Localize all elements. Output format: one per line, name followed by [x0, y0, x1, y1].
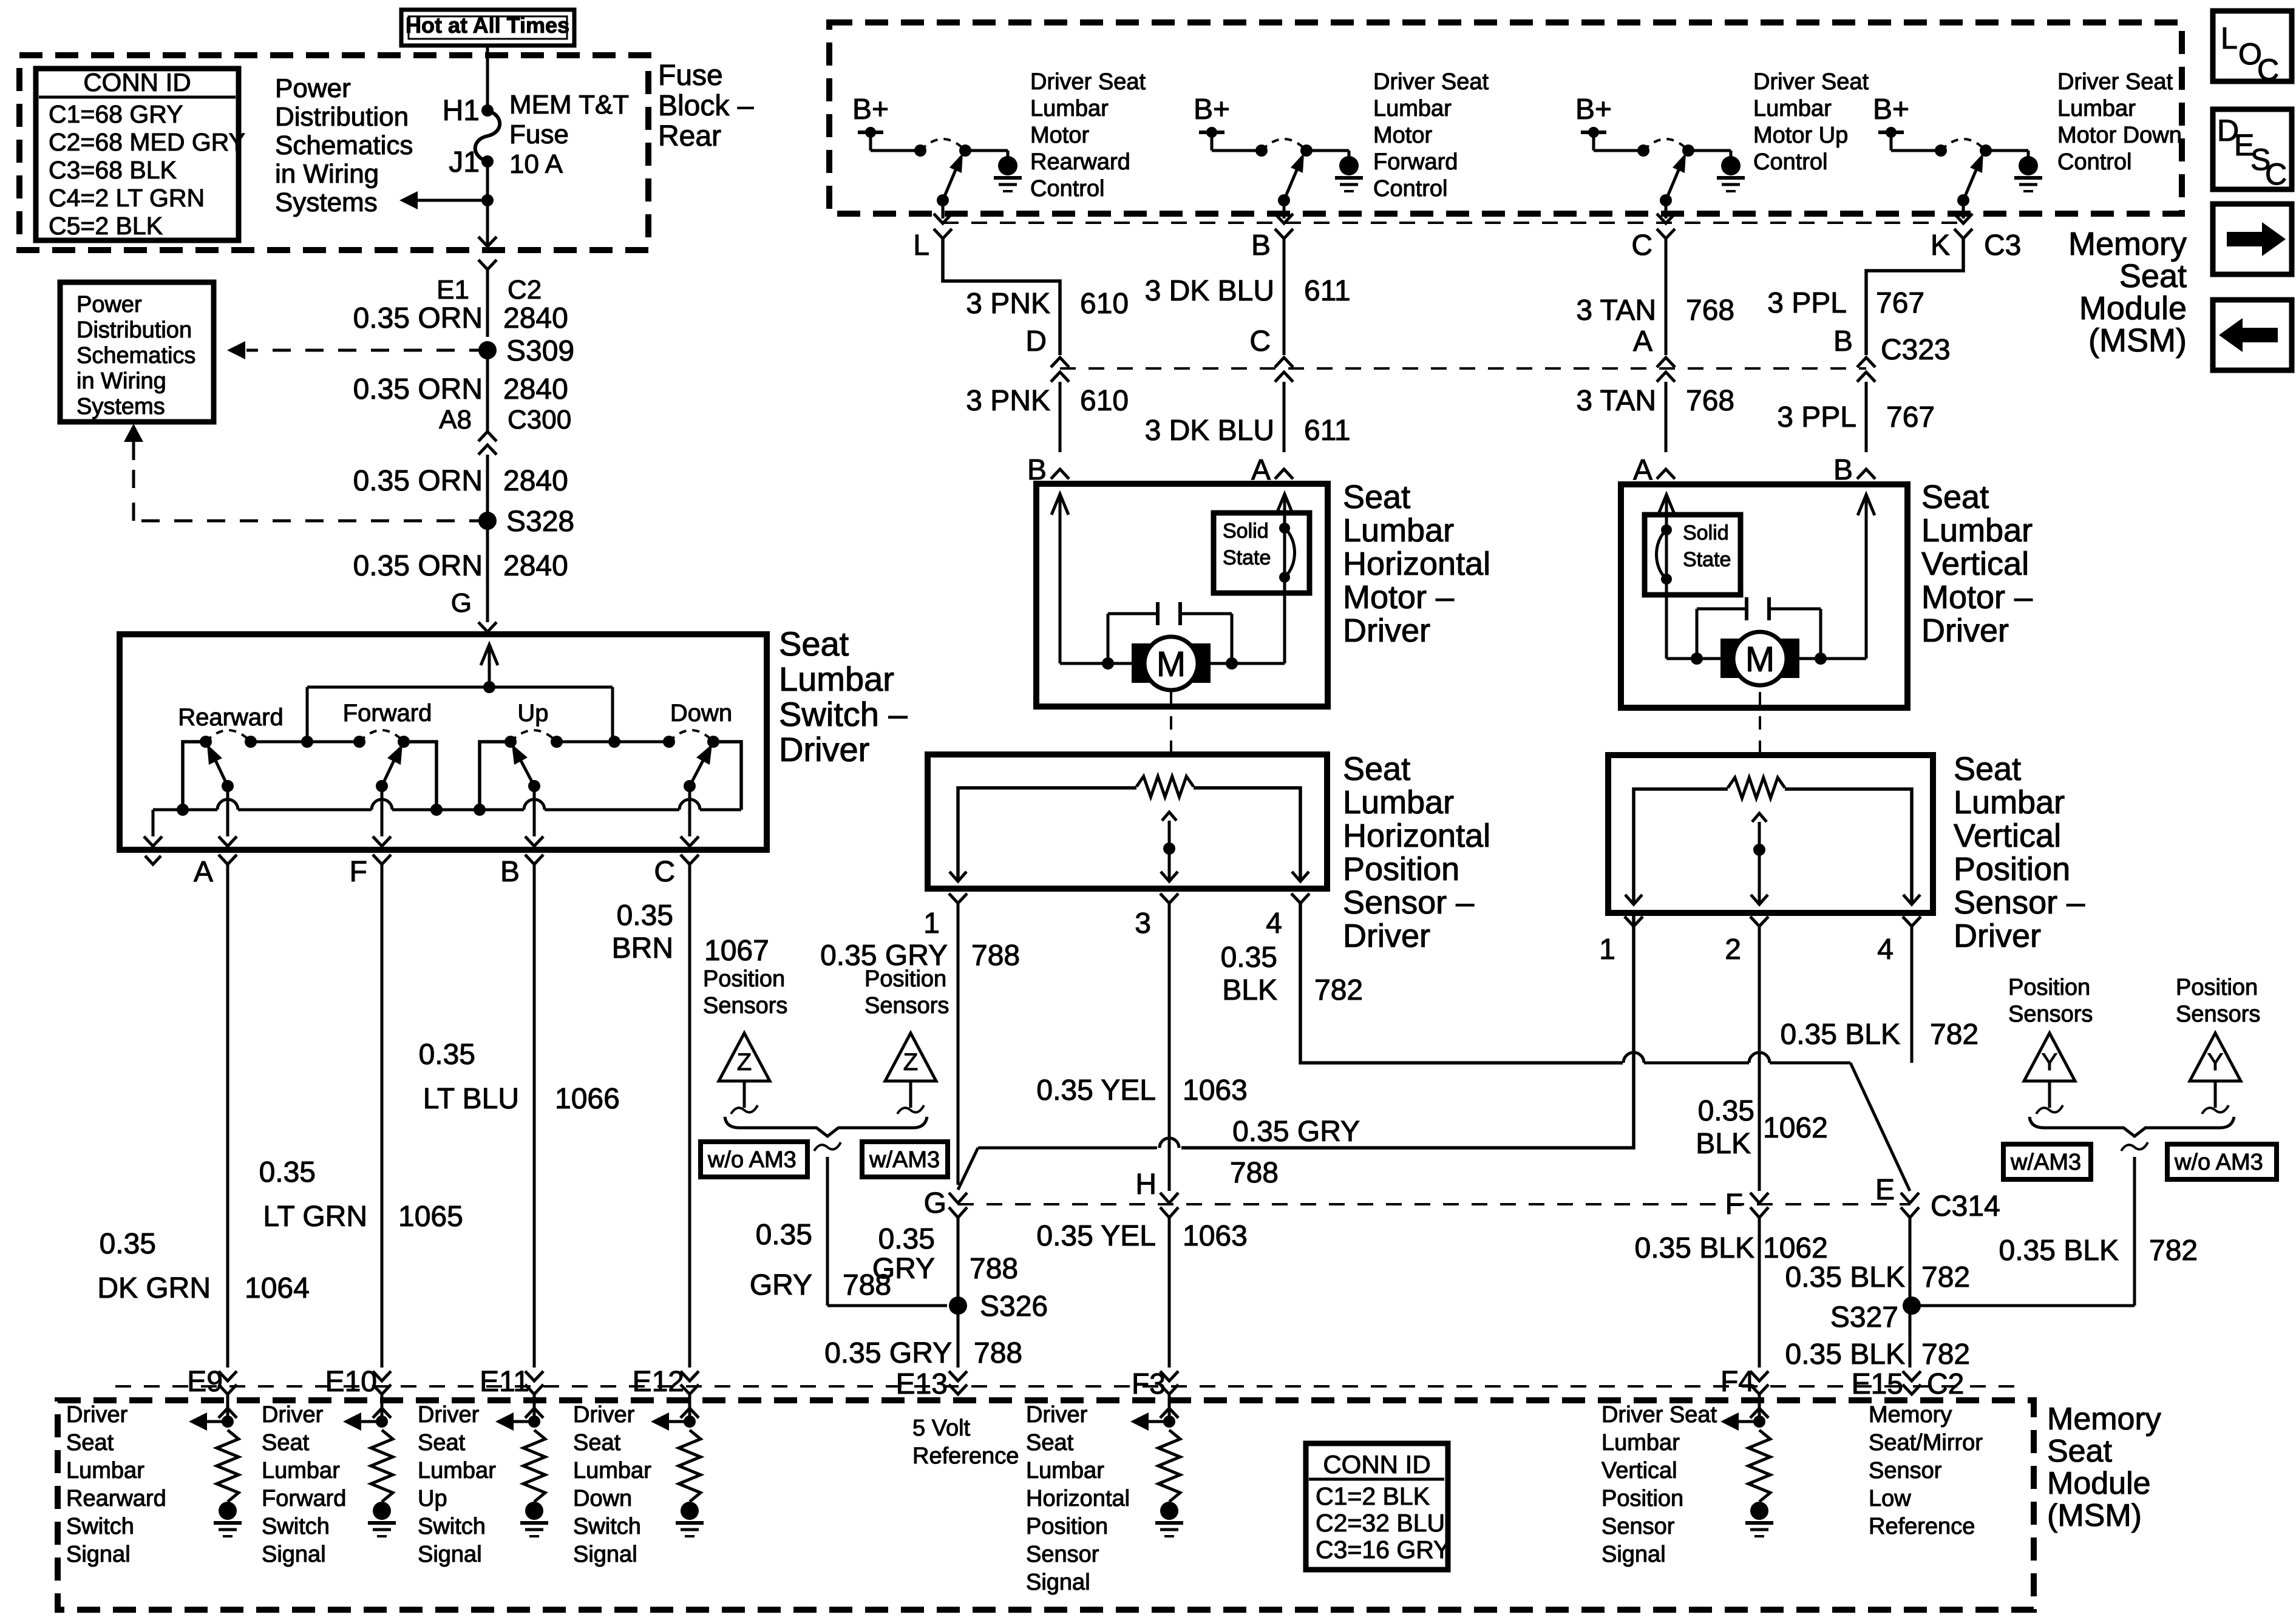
- svg-text:Down: Down: [670, 700, 732, 727]
- svg-text:Seat: Seat: [66, 1430, 114, 1456]
- svg-text:782: 782: [2149, 1235, 2198, 1267]
- svg-text:Seat: Seat: [779, 625, 849, 663]
- svg-text:1064: 1064: [245, 1272, 310, 1304]
- svg-text:Driver Seat: Driver Seat: [2057, 69, 2173, 95]
- svg-text:C3=16 GRY: C3=16 GRY: [1316, 1536, 1450, 1564]
- svg-text:Solid: Solid: [1683, 521, 1729, 544]
- svg-text:Lumbar: Lumbar: [1753, 96, 1832, 121]
- svg-text:Driver: Driver: [66, 1402, 128, 1428]
- svg-text:G: G: [451, 588, 472, 618]
- svg-text:3 PPL: 3 PPL: [1767, 287, 1847, 319]
- svg-text:J1: J1: [449, 146, 480, 178]
- svg-text:3 TAN: 3 TAN: [1576, 294, 1656, 327]
- svg-text:Distribution: Distribution: [275, 102, 409, 132]
- svg-text:Sensors: Sensors: [703, 993, 787, 1019]
- svg-text:Schematics: Schematics: [275, 131, 413, 160]
- svg-text:Position: Position: [703, 966, 785, 992]
- svg-text:Horizontal: Horizontal: [1343, 546, 1490, 582]
- svg-text:Power: Power: [275, 73, 351, 103]
- svg-text:Fuse: Fuse: [509, 120, 569, 149]
- svg-text:1: 1: [923, 907, 940, 940]
- svg-text:Sensor –: Sensor –: [1954, 884, 2085, 921]
- svg-text:B+: B+: [1575, 93, 1612, 126]
- svg-text:0.35 BLK: 0.35 BLK: [1635, 1232, 1754, 1264]
- svg-text:F4: F4: [1720, 1366, 1754, 1398]
- svg-text:F: F: [350, 856, 367, 888]
- svg-text:Driver: Driver: [262, 1402, 324, 1428]
- svg-text:in Wiring: in Wiring: [275, 159, 379, 189]
- svg-text:BLK: BLK: [1696, 1128, 1751, 1160]
- svg-text:Up: Up: [517, 700, 548, 727]
- svg-text:1062: 1062: [1763, 1112, 1828, 1144]
- svg-text:Block –: Block –: [658, 90, 754, 122]
- svg-text:(MSM): (MSM): [2047, 1498, 2142, 1533]
- svg-text:B: B: [500, 856, 520, 888]
- svg-text:Reference: Reference: [1869, 1514, 1975, 1539]
- svg-text:0.35 GRY: 0.35 GRY: [1232, 1116, 1360, 1148]
- svg-text:Seat: Seat: [1343, 479, 1410, 515]
- svg-text:611: 611: [1304, 415, 1351, 447]
- svg-text:BLK: BLK: [1222, 974, 1277, 1006]
- svg-text:Z: Z: [737, 1049, 752, 1076]
- svg-text:F: F: [1725, 1188, 1743, 1221]
- svg-text:3 PNK: 3 PNK: [966, 288, 1050, 320]
- svg-text:Systems: Systems: [275, 188, 378, 217]
- svg-text:782: 782: [1930, 1019, 1978, 1051]
- svg-text:H: H: [1135, 1168, 1156, 1201]
- svg-text:Lumbar: Lumbar: [1954, 784, 2065, 821]
- svg-text:Position: Position: [2008, 975, 2090, 1000]
- svg-text:Driver: Driver: [779, 730, 869, 768]
- svg-text:788: 788: [971, 940, 1020, 972]
- svg-text:4: 4: [1877, 934, 1894, 966]
- svg-text:Lumbar: Lumbar: [1343, 512, 1454, 549]
- svg-text:Position: Position: [1343, 851, 1459, 887]
- svg-text:10 A: 10 A: [509, 149, 563, 179]
- svg-text:2840: 2840: [503, 302, 568, 334]
- svg-text:0.35: 0.35: [259, 1156, 316, 1188]
- svg-text:1065: 1065: [398, 1201, 463, 1233]
- svg-text:Module: Module: [2047, 1466, 2151, 1501]
- svg-text:Lumbar: Lumbar: [779, 660, 894, 698]
- svg-text:3 TAN: 3 TAN: [1576, 385, 1656, 417]
- svg-text:Signal: Signal: [262, 1542, 326, 1567]
- svg-text:C1=68 GRY: C1=68 GRY: [49, 100, 183, 128]
- svg-text:State: State: [1683, 548, 1731, 571]
- svg-text:0.35 BLK: 0.35 BLK: [1781, 1019, 1900, 1051]
- svg-text:C2=68 MED GRY: C2=68 MED GRY: [49, 128, 245, 156]
- svg-text:C: C: [2257, 53, 2279, 87]
- svg-text:1063: 1063: [1183, 1220, 1248, 1252]
- svg-text:788: 788: [1230, 1157, 1279, 1189]
- svg-text:Vertical: Vertical: [1601, 1458, 1677, 1483]
- svg-text:Schematics: Schematics: [76, 343, 195, 368]
- svg-text:Motor: Motor: [1373, 123, 1432, 148]
- svg-text:Driver: Driver: [1343, 918, 1430, 954]
- svg-text:Control: Control: [1373, 176, 1448, 202]
- svg-text:Signal: Signal: [1026, 1570, 1090, 1595]
- svg-text:Vertical: Vertical: [1954, 818, 2061, 854]
- svg-text:0.35: 0.35: [419, 1039, 475, 1071]
- svg-text:Lumbar: Lumbar: [262, 1458, 340, 1483]
- svg-text:C3: C3: [1984, 229, 2021, 262]
- svg-text:610: 610: [1080, 288, 1129, 320]
- svg-text:Lumbar: Lumbar: [1030, 96, 1109, 121]
- svg-text:Switch: Switch: [66, 1514, 134, 1539]
- svg-text:Solid: Solid: [1223, 520, 1269, 543]
- svg-text:LT BLU: LT BLU: [423, 1083, 519, 1115]
- svg-text:DK GRN: DK GRN: [97, 1272, 211, 1304]
- svg-text:S327: S327: [1830, 1301, 1898, 1334]
- svg-text:Lumbar: Lumbar: [2057, 96, 2136, 121]
- svg-text:Signal: Signal: [573, 1542, 637, 1567]
- svg-text:Lumbar: Lumbar: [1343, 784, 1454, 821]
- svg-text:Seat: Seat: [1954, 751, 2021, 787]
- svg-text:Lumbar: Lumbar: [66, 1458, 144, 1483]
- svg-text:Seat: Seat: [1921, 479, 1989, 515]
- svg-text:Driver Seat: Driver Seat: [1030, 69, 1146, 95]
- svg-text:Control: Control: [2057, 149, 2132, 175]
- svg-text:3 DK BLU: 3 DK BLU: [1145, 275, 1274, 307]
- svg-text:Switch: Switch: [418, 1514, 486, 1539]
- svg-text:Signal: Signal: [1601, 1542, 1666, 1567]
- svg-text:0.35 BLK: 0.35 BLK: [1785, 1261, 1905, 1293]
- svg-text:0.35 BLK: 0.35 BLK: [1999, 1235, 2119, 1267]
- svg-text:3 PPL: 3 PPL: [1777, 401, 1856, 433]
- svg-text:0.35: 0.35: [756, 1219, 812, 1251]
- svg-text:C323: C323: [1881, 334, 1951, 366]
- svg-text:Driver Seat: Driver Seat: [1601, 1402, 1717, 1428]
- svg-text:S309: S309: [506, 335, 574, 367]
- svg-text:w/AM3: w/AM3: [2010, 1150, 2081, 1175]
- svg-text:(MSM): (MSM): [2088, 322, 2187, 359]
- svg-text:M: M: [1156, 645, 1186, 684]
- svg-text:C3=68 BLK: C3=68 BLK: [49, 156, 177, 184]
- svg-text:S326: S326: [980, 1290, 1048, 1323]
- svg-text:Switch: Switch: [573, 1514, 641, 1539]
- svg-text:0.35 YEL: 0.35 YEL: [1036, 1220, 1156, 1252]
- svg-text:E9: E9: [187, 1366, 223, 1398]
- svg-text:C2: C2: [508, 275, 542, 305]
- svg-text:3 DK BLU: 3 DK BLU: [1145, 415, 1274, 447]
- svg-text:Driver Seat: Driver Seat: [1753, 69, 1869, 95]
- svg-text:Motor –: Motor –: [1921, 579, 2033, 615]
- svg-text:Lumbar: Lumbar: [1921, 512, 2033, 549]
- svg-text:A8: A8: [439, 405, 472, 435]
- svg-text:768: 768: [1686, 294, 1734, 327]
- svg-text:GRY: GRY: [872, 1253, 935, 1285]
- svg-text:1067: 1067: [704, 935, 769, 967]
- svg-text:788: 788: [970, 1253, 1018, 1285]
- svg-text:Reference: Reference: [912, 1443, 1019, 1469]
- svg-text:Down: Down: [573, 1486, 632, 1511]
- svg-text:E10: E10: [325, 1366, 377, 1398]
- svg-text:Sensor: Sensor: [1026, 1542, 1099, 1567]
- svg-text:Motor –: Motor –: [1343, 579, 1454, 615]
- svg-text:Lumbar: Lumbar: [573, 1458, 651, 1483]
- svg-text:Memory: Memory: [1869, 1402, 1952, 1428]
- svg-text:Sensor: Sensor: [1869, 1458, 1942, 1483]
- svg-text:0.35: 0.35: [617, 900, 673, 932]
- svg-text:in Wiring: in Wiring: [76, 368, 166, 394]
- svg-text:2840: 2840: [503, 550, 568, 582]
- svg-text:Driver Seat: Driver Seat: [1373, 69, 1489, 95]
- svg-text:State: State: [1223, 546, 1271, 569]
- svg-text:M: M: [1745, 640, 1775, 679]
- svg-text:MEM T&T: MEM T&T: [509, 90, 629, 120]
- svg-text:E: E: [1875, 1174, 1895, 1206]
- svg-text:Sensors: Sensors: [864, 993, 949, 1019]
- svg-text:Lumbar: Lumbar: [1026, 1458, 1104, 1483]
- svg-text:Forward: Forward: [1373, 149, 1458, 175]
- svg-text:H1: H1: [443, 95, 480, 127]
- svg-text:767: 767: [1876, 287, 1924, 319]
- svg-text:3 PNK: 3 PNK: [966, 385, 1050, 417]
- svg-text:C300: C300: [508, 405, 571, 435]
- svg-text:C: C: [654, 856, 675, 888]
- svg-text:5 Volt: 5 Volt: [912, 1415, 971, 1441]
- svg-text:Position: Position: [1026, 1514, 1108, 1539]
- svg-text:A: A: [194, 856, 213, 888]
- svg-text:Position: Position: [1601, 1486, 1683, 1511]
- svg-text:2840: 2840: [503, 373, 568, 405]
- svg-text:Seat: Seat: [262, 1430, 310, 1456]
- svg-text:C4=2 LT GRN: C4=2 LT GRN: [49, 184, 205, 212]
- svg-text:w/o AM3: w/o AM3: [2174, 1150, 2263, 1175]
- svg-text:Seat: Seat: [1026, 1430, 1074, 1456]
- svg-text:788: 788: [974, 1337, 1022, 1369]
- svg-text:0.35: 0.35: [100, 1228, 156, 1260]
- svg-text:S328: S328: [506, 506, 574, 538]
- svg-text:Sensors: Sensors: [2008, 1002, 2093, 1027]
- svg-text:K: K: [1931, 229, 1950, 262]
- svg-text:w/o AM3: w/o AM3: [707, 1147, 796, 1173]
- svg-text:Module: Module: [2079, 290, 2187, 327]
- svg-text:1062: 1062: [1763, 1232, 1828, 1264]
- svg-text:2: 2: [1725, 934, 1741, 966]
- svg-text:E13: E13: [896, 1368, 948, 1400]
- svg-text:Seat: Seat: [418, 1430, 466, 1456]
- svg-text:0.35: 0.35: [1698, 1095, 1754, 1127]
- svg-text:CONN ID: CONN ID: [83, 68, 191, 97]
- svg-text:Position: Position: [2176, 975, 2258, 1000]
- svg-text:B+: B+: [1873, 93, 1909, 126]
- svg-text:1063: 1063: [1183, 1074, 1248, 1107]
- svg-text:768: 768: [1686, 385, 1734, 417]
- svg-text:GRY: GRY: [750, 1269, 812, 1301]
- svg-text:Position: Position: [1954, 851, 2070, 887]
- svg-text:0.35 ORN: 0.35 ORN: [353, 550, 483, 582]
- svg-text:0.35: 0.35: [1221, 941, 1277, 974]
- svg-text:Power: Power: [76, 292, 142, 317]
- svg-text:C1=2 BLK: C1=2 BLK: [1316, 1482, 1430, 1510]
- svg-text:Up: Up: [418, 1486, 447, 1511]
- svg-text:Memory: Memory: [2047, 1402, 2161, 1437]
- svg-text:B: B: [1833, 325, 1853, 358]
- svg-text:Lumbar: Lumbar: [1601, 1430, 1680, 1456]
- svg-text:Horizontal: Horizontal: [1026, 1486, 1130, 1511]
- svg-text:Driver: Driver: [1343, 612, 1430, 649]
- svg-text:LT GRN: LT GRN: [263, 1201, 367, 1233]
- svg-text:Low: Low: [1869, 1486, 1911, 1511]
- svg-text:2840: 2840: [503, 465, 568, 497]
- svg-text:Horizontal: Horizontal: [1343, 818, 1490, 854]
- svg-text:C5=2 BLK: C5=2 BLK: [49, 212, 163, 240]
- svg-text:Rearward: Rearward: [1030, 149, 1130, 175]
- svg-text:D: D: [1025, 325, 1047, 358]
- svg-text:Motor Down: Motor Down: [2057, 123, 2182, 148]
- svg-text:B+: B+: [1194, 93, 1230, 126]
- svg-text:Motor: Motor: [1030, 123, 1089, 148]
- svg-text:Signal: Signal: [418, 1542, 482, 1567]
- svg-text:3: 3: [1135, 907, 1151, 940]
- svg-text:782: 782: [1314, 974, 1363, 1006]
- svg-text:E12: E12: [633, 1366, 684, 1398]
- svg-text:Sensor –: Sensor –: [1343, 884, 1474, 921]
- svg-text:C2: C2: [1927, 1368, 1964, 1400]
- svg-text:1066: 1066: [555, 1083, 620, 1115]
- svg-text:C: C: [2265, 157, 2287, 191]
- svg-text:Y: Y: [2207, 1049, 2224, 1076]
- svg-text:767: 767: [1886, 401, 1935, 433]
- svg-text:Position: Position: [864, 966, 946, 992]
- svg-text:C314: C314: [1931, 1190, 2000, 1222]
- svg-text:Forward: Forward: [343, 700, 432, 727]
- svg-text:Fuse: Fuse: [658, 59, 723, 92]
- svg-text:Driver: Driver: [573, 1402, 635, 1428]
- svg-text:E15: E15: [1852, 1368, 1903, 1400]
- svg-text:782: 782: [1921, 1261, 1970, 1293]
- svg-text:4: 4: [1266, 907, 1282, 940]
- svg-text:0.35 BLK: 0.35 BLK: [1785, 1338, 1905, 1371]
- svg-text:0.35: 0.35: [878, 1223, 935, 1255]
- svg-text:Seat/Mirror: Seat/Mirror: [1869, 1430, 1983, 1456]
- svg-text:B+: B+: [852, 93, 889, 126]
- svg-text:Distribution: Distribution: [76, 317, 192, 343]
- svg-text:Rearward: Rearward: [66, 1486, 166, 1511]
- svg-text:Control: Control: [1753, 149, 1828, 175]
- svg-text:Driver: Driver: [1026, 1402, 1088, 1428]
- svg-text:Lumbar: Lumbar: [1373, 96, 1452, 121]
- svg-text:Seat: Seat: [2119, 258, 2187, 294]
- svg-text:1: 1: [1599, 934, 1615, 966]
- svg-text:Rearward: Rearward: [178, 704, 283, 731]
- svg-text:0.35 ORN: 0.35 ORN: [353, 373, 483, 405]
- svg-text:Y: Y: [2042, 1049, 2058, 1076]
- svg-text:L: L: [2221, 21, 2238, 55]
- svg-text:A: A: [1633, 325, 1652, 358]
- svg-text:CONN ID: CONN ID: [1323, 1450, 1430, 1479]
- svg-text:Rear: Rear: [658, 120, 721, 152]
- svg-text:Forward: Forward: [262, 1486, 346, 1511]
- svg-text:C: C: [1631, 229, 1652, 262]
- svg-text:Signal: Signal: [66, 1542, 131, 1567]
- svg-text:611: 611: [1304, 275, 1351, 307]
- svg-text:G: G: [924, 1187, 946, 1219]
- svg-text:Motor Up: Motor Up: [1753, 123, 1848, 148]
- svg-text:Switch –: Switch –: [779, 695, 908, 733]
- svg-text:Z: Z: [903, 1049, 918, 1076]
- svg-text:Hot at All Times: Hot at All Times: [406, 13, 569, 38]
- svg-text:C2=32 BLU: C2=32 BLU: [1316, 1509, 1445, 1537]
- svg-text:Seat: Seat: [573, 1430, 621, 1456]
- svg-text:Switch: Switch: [262, 1514, 330, 1539]
- svg-text:782: 782: [1921, 1338, 1970, 1371]
- svg-text:Vertical: Vertical: [1921, 546, 2029, 582]
- svg-text:E11: E11: [480, 1366, 529, 1398]
- svg-text:610: 610: [1080, 385, 1129, 417]
- svg-text:L: L: [913, 229, 929, 262]
- svg-text:E1: E1: [436, 275, 469, 305]
- svg-text:0.35 GRY: 0.35 GRY: [824, 1337, 952, 1369]
- svg-text:Lumbar: Lumbar: [418, 1458, 496, 1483]
- svg-text:Control: Control: [1030, 176, 1105, 202]
- svg-text:Sensors: Sensors: [2176, 1002, 2260, 1027]
- svg-text:w/AM3: w/AM3: [869, 1147, 940, 1173]
- svg-text:Systems: Systems: [76, 394, 165, 419]
- svg-text:BRN: BRN: [612, 932, 673, 964]
- svg-text:0.35 ORN: 0.35 ORN: [353, 465, 483, 497]
- svg-text:B: B: [1251, 229, 1271, 262]
- svg-text:Sensor: Sensor: [1601, 1514, 1675, 1539]
- svg-text:Driver: Driver: [1954, 918, 2041, 954]
- svg-text:Seat: Seat: [2047, 1434, 2113, 1469]
- svg-text:0.35 YEL: 0.35 YEL: [1036, 1074, 1156, 1107]
- svg-text:Memory: Memory: [2068, 226, 2187, 262]
- svg-text:C: C: [1249, 325, 1271, 358]
- svg-text:Seat: Seat: [1343, 751, 1410, 787]
- svg-text:0.35 ORN: 0.35 ORN: [353, 302, 483, 334]
- svg-text:Driver: Driver: [418, 1402, 480, 1428]
- svg-text:Driver: Driver: [1921, 612, 2009, 649]
